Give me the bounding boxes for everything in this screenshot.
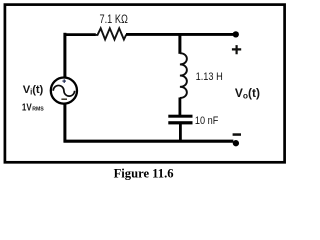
resistor R (7.1 KΩ) zigzag bbox=[95, 28, 126, 39]
+ output polarity symbol bbox=[232, 45, 241, 54]
svg-text:RMS: RMS bbox=[32, 107, 44, 113]
inductor L (1.13 H) bbox=[180, 53, 187, 98]
wire: capacitor to bottom wire lead bbox=[179, 124, 182, 141]
svg-text:1.13 H: 1.13 H bbox=[196, 71, 223, 83]
svg-text:Vo(t): Vo(t) bbox=[235, 86, 260, 101]
wire: top horizontal right segment bbox=[126, 33, 233, 36]
wire: branch junction vertical lead bbox=[178, 33, 181, 54]
- output polarity symbol bbox=[233, 133, 241, 136]
svg-text:7.1 KΩ: 7.1 KΩ bbox=[100, 13, 129, 26]
wire: left vertical (source top lead to top wire) bbox=[63, 33, 66, 78]
svg-text:Vi(t): Vi(t) bbox=[23, 84, 44, 97]
svg-text:Figure 11.6: Figure 11.6 bbox=[114, 166, 174, 180]
wire: bottom horizontal bbox=[64, 140, 234, 143]
source sine wave bbox=[53, 85, 74, 96]
border frame bbox=[5, 5, 285, 163]
wire: top horizontal left segment bbox=[64, 33, 96, 36]
capacitor C top plate bbox=[168, 115, 192, 118]
wire: inductor to capacitor lead bbox=[178, 98, 181, 116]
source + mark bbox=[62, 79, 66, 83]
source Vi circle bbox=[51, 78, 77, 104]
capacitor C bottom plate bbox=[168, 121, 192, 124]
svg-text:10 nF: 10 nF bbox=[195, 115, 219, 127]
svg-text:1V: 1V bbox=[22, 102, 32, 113]
terminal dot (- output) bbox=[233, 140, 239, 146]
source - mark bbox=[61, 98, 67, 100]
wire: left vertical (source bottom lead to bottom wire) bbox=[63, 104, 66, 143]
terminal dot (+ output) bbox=[233, 31, 239, 37]
